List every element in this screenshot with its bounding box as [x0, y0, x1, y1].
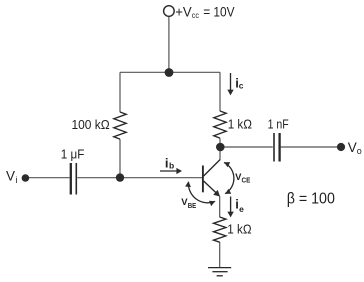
svg-text:b: b [169, 161, 174, 171]
svg-text:cc: cc [192, 10, 200, 20]
svg-text:V: V [6, 169, 15, 184]
svg-text:c: c [239, 80, 244, 90]
svg-text:100 kΩ: 100 kΩ [72, 118, 110, 132]
svg-text:i: i [165, 155, 169, 170]
svg-text:o: o [357, 146, 362, 156]
svg-text:BE: BE [188, 203, 197, 210]
svg-text:1 kΩ: 1 kΩ [228, 118, 252, 132]
svg-text:CE: CE [242, 178, 251, 185]
svg-text:+V: +V [175, 4, 192, 20]
svg-text:1 kΩ: 1 kΩ [227, 222, 251, 236]
svg-text:β = 100: β = 100 [287, 190, 336, 207]
svg-text:i: i [16, 175, 18, 185]
svg-text:= 10V: = 10V [203, 4, 235, 20]
svg-text:e: e [239, 204, 244, 214]
svg-text:1 μF: 1 μF [61, 147, 85, 161]
svg-text:V: V [348, 140, 357, 155]
svg-text:1 nF: 1 nF [268, 118, 289, 132]
